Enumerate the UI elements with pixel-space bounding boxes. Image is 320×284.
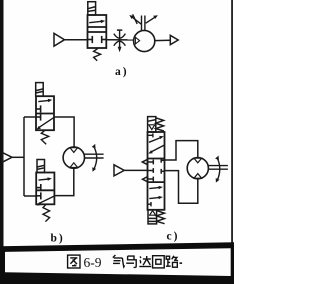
valve V2 flow arrow xyxy=(38,99,52,102)
wire: V4 upper work port to motor M3 top xyxy=(165,141,198,160)
throttle adjustment arrow xyxy=(117,30,122,52)
valve V4 parallel arrow lower xyxy=(149,196,163,199)
wire: V4 lower work port to motor M3 bottom xyxy=(165,171,198,204)
svg-text:b): b) xyxy=(51,232,65,244)
valve V4 body (5/3 valve) xyxy=(148,132,165,210)
wire: supply to valve V4 xyxy=(124,169,147,171)
valve V3 port T upper xyxy=(36,184,41,191)
return spring under V3 xyxy=(43,204,50,221)
M2 bottom inner triangle xyxy=(70,163,78,168)
valve V1 right blocked port T xyxy=(102,36,107,43)
valve V4 crossed arrow upper xyxy=(149,136,164,142)
M2 top inner triangle xyxy=(70,148,78,153)
M2 shaft double line xyxy=(85,154,104,158)
valve V1 flow arrow xyxy=(89,20,105,23)
wire: supply to valve V1 xyxy=(65,39,88,41)
valve V4 parallel arrow upper xyxy=(149,186,163,189)
valve V1 left blocked port T xyxy=(88,36,93,43)
wire: bus to valve V3 inlet xyxy=(24,195,36,197)
exhaust triangle (circuit a) xyxy=(170,35,178,44)
air motor M2 circle xyxy=(63,147,84,168)
caption glyph 图 xyxy=(68,255,80,268)
valve V4 crossed arrow lower xyxy=(148,145,165,154)
valve V4 left exhaust triangle upper xyxy=(142,159,147,164)
return spring under V2 xyxy=(41,130,48,144)
valve V4 left exhaust triangle lower xyxy=(143,177,148,182)
wire: V2 outlet to motor M2 top xyxy=(54,117,74,147)
caption glyph 回 xyxy=(153,256,165,268)
air supply triangle (circuit b) xyxy=(3,153,13,163)
caption white band xyxy=(5,248,231,276)
valve V2 port T lower xyxy=(36,113,41,120)
valve V3 port T lower xyxy=(36,192,41,199)
M1 inner flow triangle xyxy=(135,37,139,44)
valve V4 top pilot actuator box xyxy=(148,117,156,132)
valve V4 bottom-position port T xyxy=(148,202,152,206)
right border line xyxy=(231,0,233,284)
caption glyph 达 xyxy=(139,256,151,267)
valve V3 body (3/2 valve, lower) xyxy=(36,173,54,205)
caption glyph 路 xyxy=(166,256,178,267)
M3 rotation double arrow xyxy=(215,156,220,183)
valve V4 middle right port T row2 xyxy=(161,169,164,174)
wire: supply to bus xyxy=(12,156,24,158)
wire: motor M2 bottom to valve V3 outlet xyxy=(55,168,74,195)
throttle valve F1 (restrictor arcs) xyxy=(114,34,126,46)
valve V4 top spring xyxy=(156,118,164,131)
M3 bottom inner triangle xyxy=(194,174,202,179)
valve V4 top-position port T xyxy=(148,133,153,137)
valve V4 bottom spring xyxy=(157,211,165,224)
valve V2 exhaust diagonal arrow xyxy=(36,117,54,129)
valve V4 bottom pilot actuator box xyxy=(148,210,157,224)
valve V4 middle left port T row3 xyxy=(148,177,154,182)
push-button actuator on V2 xyxy=(36,83,44,97)
M1 right arrow xyxy=(146,15,158,23)
M3 shaft double line xyxy=(208,166,228,170)
valve V1 body (2/2 directional valve) xyxy=(88,15,107,48)
svg-text:c): c) xyxy=(167,230,180,242)
caption black panel xyxy=(0,242,234,284)
valve V4 middle left port T row2 xyxy=(148,168,154,173)
M1 left exhaust arrow with tick xyxy=(129,14,142,24)
wire: V1 to throttle xyxy=(106,39,133,41)
valve V4 middle left port T row1 xyxy=(148,160,154,165)
left border bar xyxy=(0,0,4,284)
svg-text:6-9: 6-9 xyxy=(84,255,102,270)
push-button actuator on V3 xyxy=(37,160,45,173)
wire: M1 to exhaust triangle xyxy=(155,39,171,41)
svg-text:a): a) xyxy=(115,66,129,78)
wire: bus to valve V2 inlet xyxy=(24,116,36,118)
push-button actuator on V1 xyxy=(88,2,96,15)
caption glyph 马 xyxy=(126,256,136,267)
air motor M1 circle xyxy=(134,30,155,51)
supply bus wire xyxy=(23,117,25,196)
caption stray mark xyxy=(180,262,183,264)
valve V2 body (3/2 valve, upper) xyxy=(36,96,54,130)
M1 top port lines xyxy=(142,16,145,31)
valve V2 port T upper xyxy=(36,105,41,112)
valve V3 flow arrow xyxy=(39,177,52,180)
M2 rotation double arrow xyxy=(92,144,97,172)
valve V4 middle right port T row1 xyxy=(161,158,164,163)
return spring under V1 xyxy=(94,48,101,61)
M3 top inner triangle xyxy=(194,158,202,163)
air supply triangle (circuit c) xyxy=(114,165,124,176)
air motor M3 circle xyxy=(187,158,208,179)
caption glyph 气 xyxy=(113,255,125,267)
valve V3 exhaust diagonal arrow xyxy=(37,196,55,206)
air supply triangle (circuit a) xyxy=(54,33,65,46)
